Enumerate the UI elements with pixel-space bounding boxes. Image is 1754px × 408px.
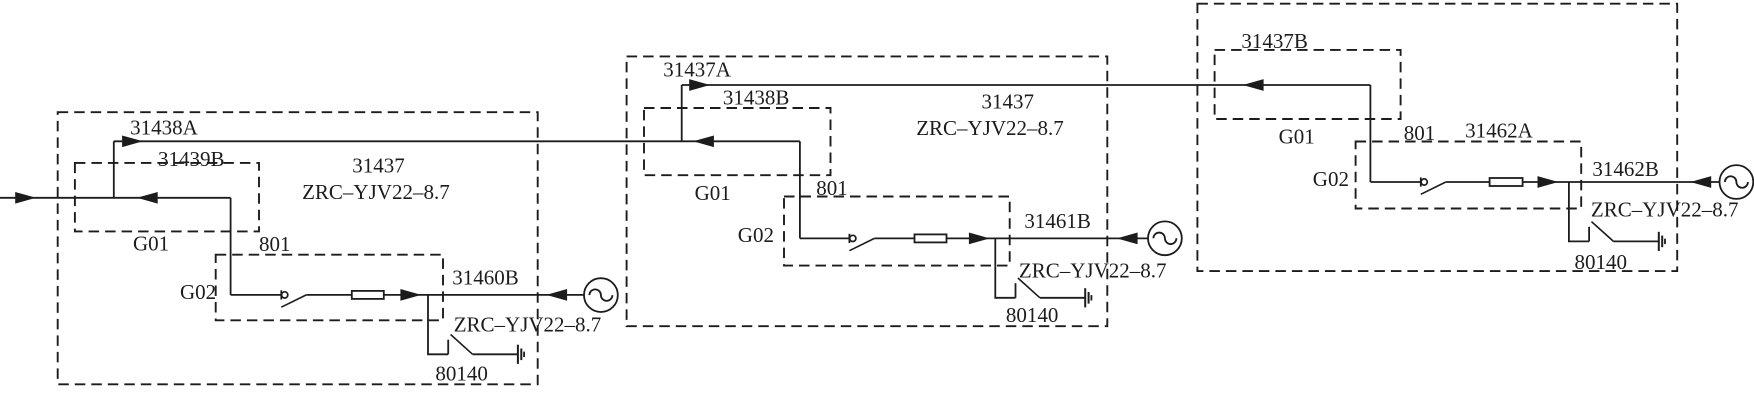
fuse F1, block 1 xyxy=(352,291,384,299)
disconnect switch S3 (801), block 3 xyxy=(1421,177,1446,194)
wire xyxy=(1446,181,1490,183)
svg-text:80140: 80140 xyxy=(1006,303,1059,327)
svg-text:31438B: 31438B xyxy=(723,86,790,110)
block 3 outer dashed boundary xyxy=(1197,4,1677,271)
wire: incoming feeder into block 1 xyxy=(0,197,231,199)
disconnect switch S2 (801), block 2 xyxy=(849,234,874,251)
block 2 dashed box 801 (G02 bay) xyxy=(784,197,1010,266)
wire xyxy=(874,237,914,239)
arrow: from generator G, block 3 xyxy=(1690,176,1711,188)
block 3 dashed box 31437B (G01 bay) xyxy=(1215,50,1401,119)
svg-text:31438A: 31438A xyxy=(130,116,199,140)
block 2 outer dashed boundary xyxy=(627,56,1108,326)
svg-text:ZRC–YJV22–8.7: ZRC–YJV22–8.7 xyxy=(302,180,450,204)
block 2 dashed box 31438B (G01 bay) xyxy=(644,108,831,175)
wire: outgoing 31460B xyxy=(384,294,584,296)
svg-text:801: 801 xyxy=(1404,121,1436,145)
wire: drop to G02 switch, block 2 xyxy=(799,141,801,238)
earthing switch ES3 (80140), block 3 xyxy=(1569,182,1659,241)
svg-text:31462B: 31462B xyxy=(1592,157,1659,181)
fuse F2, block 2 xyxy=(915,234,947,242)
svg-text:31437A: 31437A xyxy=(663,57,732,81)
svg-text:G02: G02 xyxy=(180,280,216,304)
wire: outgoing 31462B xyxy=(1523,181,1720,183)
svg-text:ZRC–YJV22–8.7: ZRC–YJV22–8.7 xyxy=(916,116,1064,140)
svg-text:G01: G01 xyxy=(1279,124,1315,148)
wire: cable 31437 between block 2 and block 3 xyxy=(682,84,1371,86)
arrow: flow to 31461B xyxy=(969,233,990,245)
svg-text:31437: 31437 xyxy=(352,154,405,178)
AC source G2 xyxy=(1148,221,1182,255)
arrow: flow out of 31438A xyxy=(122,135,143,147)
wire: cable 31437 between block 1 and block 2 xyxy=(114,140,800,142)
svg-text:G01: G01 xyxy=(133,232,169,256)
block 1 outer dashed boundary xyxy=(58,112,538,384)
wire: switch feed, block 1 xyxy=(231,294,281,296)
fuse F3, block 3 xyxy=(1490,178,1523,186)
svg-text:31460B: 31460B xyxy=(452,265,519,289)
arrow: flow to 31462B xyxy=(1538,176,1559,188)
ground xyxy=(1085,288,1091,307)
svg-text:G02: G02 xyxy=(1313,167,1349,191)
AC source G1 xyxy=(584,278,618,312)
svg-text:801: 801 xyxy=(816,176,848,200)
svg-text:G01: G01 xyxy=(695,181,731,205)
svg-text:31461B: 31461B xyxy=(1024,209,1091,233)
AC source G3 xyxy=(1720,165,1754,199)
earthing switch ES1 (80140), block 1 xyxy=(428,295,518,354)
svg-text:ZRC–YJV22–8.7: ZRC–YJV22–8.7 xyxy=(1591,197,1739,221)
arrow: flow toward 31437B xyxy=(1243,79,1264,91)
block 3 dashed box 801 (G02 bay) xyxy=(1356,142,1582,209)
arrow: from generator G, block 2 xyxy=(1117,233,1138,245)
arrow: flow toward node 31439B xyxy=(137,192,158,204)
svg-text:ZRC–YJV22–8.7: ZRC–YJV22–8.7 xyxy=(1019,259,1167,283)
svg-text:31437: 31437 xyxy=(982,90,1035,114)
wire: riser to 31437A xyxy=(681,85,683,141)
svg-text:80140: 80140 xyxy=(435,362,488,386)
wire: drop to G02 switch, block 3 xyxy=(1369,85,1371,182)
svg-text:80140: 80140 xyxy=(1575,250,1628,274)
arrow: flow toward 31438B xyxy=(693,135,714,147)
arrow: flow out of 31437A xyxy=(689,79,710,91)
arrow: flow to 31460B xyxy=(400,289,421,301)
earthing switch ES2 (80140), block 2 xyxy=(995,238,1085,297)
wire: switch feed, block 2 xyxy=(800,237,849,239)
block 1 dashed box 801 (G02 bay) xyxy=(216,255,443,321)
svg-text:ZRC–YJV22–8.7: ZRC–YJV22–8.7 xyxy=(454,313,602,337)
svg-text:G02: G02 xyxy=(738,223,774,247)
ground xyxy=(518,345,524,364)
wire: riser to 31438A xyxy=(113,141,115,198)
block 1 dashed box 31439B (G01 bay) xyxy=(75,163,259,232)
svg-text:31439B: 31439B xyxy=(158,147,225,171)
wire xyxy=(306,294,352,296)
disconnect switch S1 (801), block 1 xyxy=(281,290,306,307)
wire: switch feed, block 3 xyxy=(1370,181,1420,183)
arrow: power flow into block 1 xyxy=(15,192,36,204)
svg-text:31462A: 31462A xyxy=(1465,119,1534,143)
svg-text:801: 801 xyxy=(259,232,291,256)
arrow: from generator G, block 1 xyxy=(546,289,567,301)
ground xyxy=(1659,232,1665,251)
wire: drop to G02 switch, block 1 xyxy=(230,198,232,295)
svg-text:31437B: 31437B xyxy=(1241,29,1308,53)
wire: outgoing 31461B xyxy=(947,237,1149,239)
